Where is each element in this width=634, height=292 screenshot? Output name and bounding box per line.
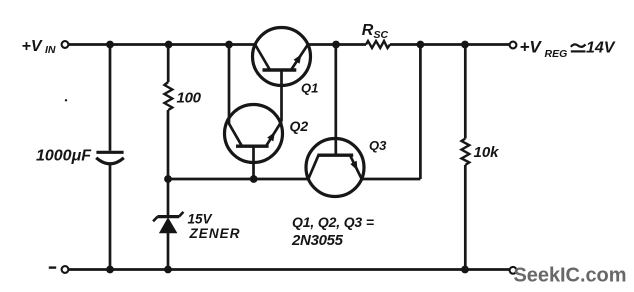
svg-text:15V: 15V — [188, 212, 213, 227]
svg-text:R: R — [362, 22, 374, 39]
svg-text:1000μF: 1000μF — [36, 148, 92, 165]
svg-text:SC: SC — [374, 29, 389, 41]
svg-text:14V: 14V — [586, 39, 616, 56]
svg-text:ZENER: ZENER — [189, 226, 240, 241]
svg-text:IN: IN — [45, 44, 56, 56]
svg-text:Q1, Q2, Q3 =: Q1, Q2, Q3 = — [292, 214, 374, 230]
svg-text:10k: 10k — [474, 144, 500, 161]
svg-text:Q3: Q3 — [369, 138, 387, 153]
svg-text:Q2: Q2 — [290, 118, 309, 134]
svg-text:Q1: Q1 — [301, 81, 318, 96]
svg-text:+V: +V — [520, 38, 543, 57]
svg-text:+V: +V — [22, 38, 43, 55]
svg-text:REG: REG — [545, 48, 568, 60]
svg-text:SeekIC.com: SeekIC.com — [514, 265, 627, 287]
svg-text:100: 100 — [177, 90, 202, 107]
svg-text:2N3055: 2N3055 — [291, 232, 344, 249]
